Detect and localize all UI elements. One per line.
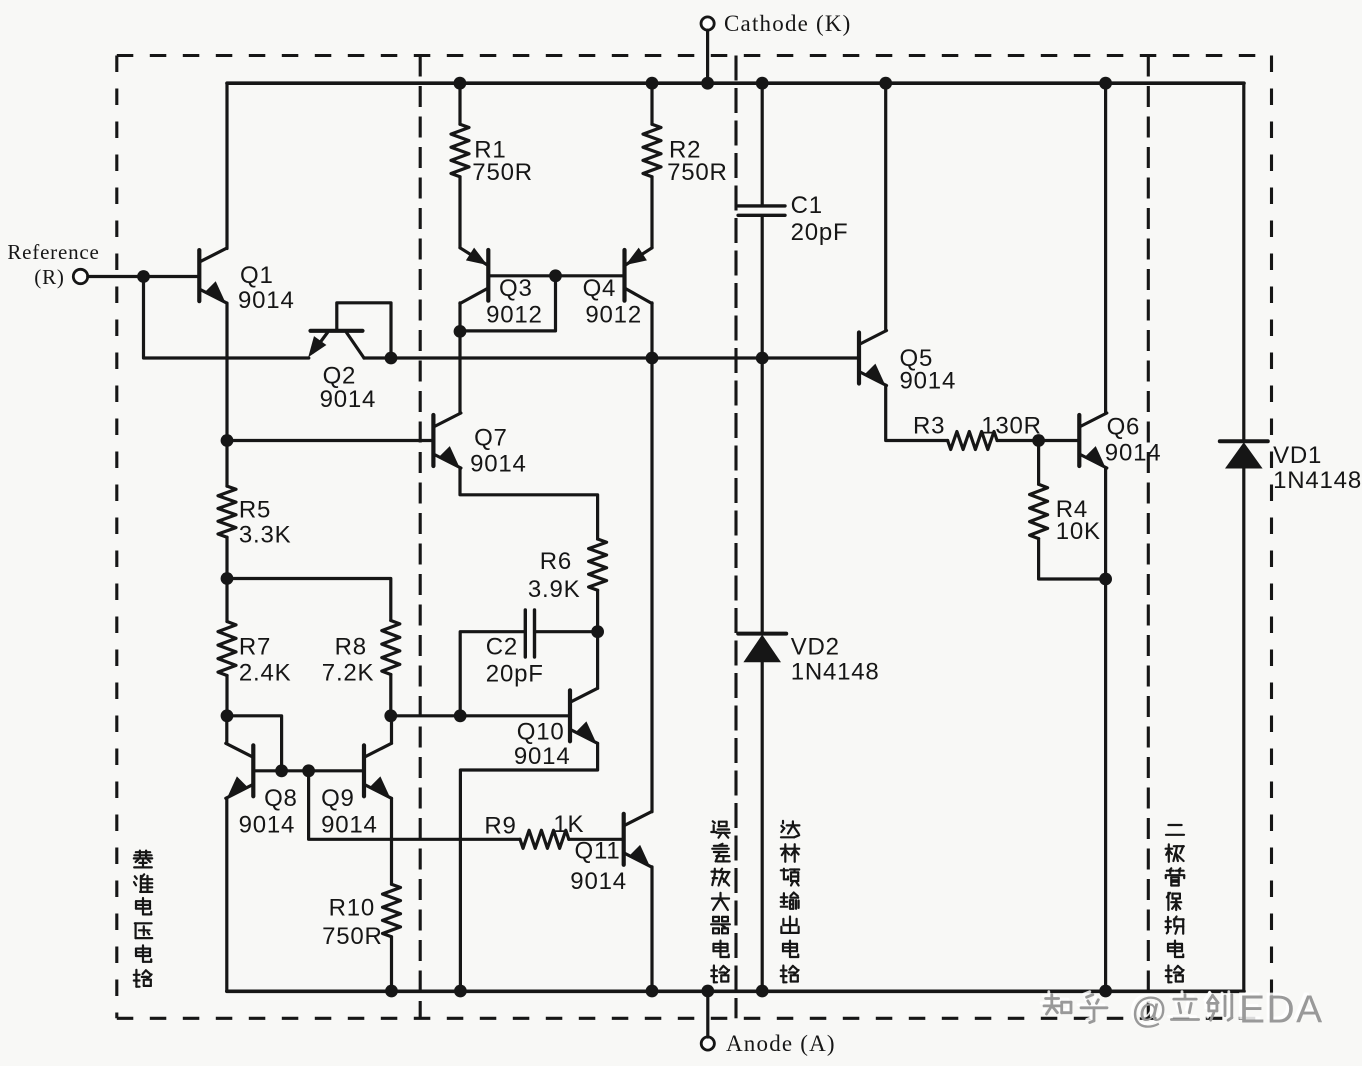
wire Q3-Q4 base tie — [488, 274, 624, 277]
wire R2 top — [650, 83, 653, 124]
wire Q9 emitter down to R10 — [390, 798, 393, 884]
section divider dashed (reference voltage / error amp) — [419, 56, 422, 1019]
wire error-amp output node (Q2 to Q5 base) — [364, 356, 859, 359]
transistor Q2 (diode-connected) — [308, 303, 391, 358]
section frame: outer dashed border right — [1270, 56, 1273, 1019]
wire R4 top — [1037, 441, 1040, 485]
wire Q11 collector up to mid node — [650, 358, 653, 812]
wire Q1 collector to top bus — [225, 83, 228, 248]
label Anode (A) — [726, 1031, 836, 1056]
terminal Cathode (K) pin circle — [701, 17, 714, 30]
resistor R2 — [643, 124, 661, 177]
resistor R1 — [451, 124, 469, 177]
wire VD2 bottom to bottom bus — [761, 662, 764, 991]
svg-text:9012: 9012 — [486, 302, 543, 329]
label Q3 value 9012 — [486, 302, 543, 329]
wire R3 to Q6 base — [997, 439, 1079, 442]
capacitor C1 — [738, 206, 785, 215]
wire bottom anode bus — [227, 989, 1244, 993]
svg-text:Anode (A): Anode (A) — [726, 1031, 836, 1056]
svg-text:Q10: Q10 — [517, 719, 565, 746]
wire Q3 collector drop — [458, 303, 461, 332]
transistor Q1 — [199, 248, 227, 303]
svg-text:Q8: Q8 — [264, 785, 298, 812]
label R9 value 1K — [553, 811, 584, 838]
label Q9 — [321, 785, 355, 812]
label Q8 — [264, 785, 298, 812]
label Q4 — [583, 275, 617, 302]
label R3 — [913, 413, 945, 440]
section label: reference voltage circuit (基准电压电路) — [134, 851, 152, 987]
transistor Q9 — [364, 743, 392, 798]
junction dots (all solder nodes) — [137, 77, 1112, 998]
label Q10 — [517, 719, 565, 746]
label R7 — [239, 634, 271, 661]
wire anode lead — [706, 991, 709, 1037]
wire R1 top — [458, 83, 461, 124]
svg-text:R7: R7 — [239, 634, 271, 661]
label Q5 value 9014 — [900, 368, 957, 395]
transistor Q5 — [859, 331, 887, 386]
wire R7 bottom — [225, 676, 228, 716]
wire Q8 collector up — [225, 716, 228, 744]
wire Q7 emitter to R6 — [460, 468, 598, 539]
label R7 value 2.4K — [239, 659, 292, 686]
label C1 — [791, 192, 823, 219]
resistor R8 — [382, 621, 400, 675]
label R4 value 10K — [1056, 518, 1101, 545]
transistor Q10 — [570, 688, 598, 743]
label Q5 — [900, 345, 934, 372]
section divider dashed (error amp / darlington output) — [734, 56, 737, 1019]
svg-text:750R: 750R — [472, 159, 533, 186]
svg-text:9014: 9014 — [900, 368, 957, 395]
transistor Q7 — [433, 413, 461, 468]
label Q2 — [323, 362, 357, 389]
watermark zhihu @lceda — [1041, 986, 1324, 1032]
transistor Q3 — [460, 248, 488, 304]
svg-text:9014: 9014 — [470, 451, 527, 478]
svg-text:VD1: VD1 — [1273, 442, 1322, 469]
wire Q6 collector up to top bus — [1104, 83, 1107, 413]
section label: diode protection circuit (二极管保护电路) — [1166, 825, 1185, 982]
label R1 value 750R — [472, 159, 533, 186]
svg-text:9014: 9014 — [570, 868, 627, 895]
wire R7 top — [225, 579, 228, 622]
section frame: outer dashed border left — [115, 56, 118, 1019]
svg-text:9014: 9014 — [320, 386, 377, 413]
wire R9 to Q11 base — [569, 838, 624, 841]
svg-text:R10: R10 — [329, 895, 375, 922]
transistor Q8 — [226, 743, 254, 798]
label R4 — [1056, 496, 1088, 523]
wire Q7 base — [227, 439, 433, 442]
wire Q6 emitter down to bottom bus — [1104, 468, 1107, 991]
label R2 value 750R — [667, 159, 728, 186]
label Q7 — [474, 424, 508, 451]
svg-text:1N4148: 1N4148 — [1273, 467, 1362, 494]
wire R5 top — [225, 441, 228, 487]
label (R) — [34, 265, 64, 289]
label Q1 — [240, 262, 274, 289]
resistor R6 — [589, 539, 607, 590]
svg-text:Cathode (K): Cathode (K) — [724, 11, 852, 36]
svg-text:Q11: Q11 — [575, 838, 621, 865]
svg-text:9014: 9014 — [238, 287, 295, 314]
label Q7 value 9014 — [470, 451, 527, 478]
terminal Reference (R) pin circle — [73, 269, 87, 283]
wire VD1 bottom to bottom bus — [1242, 469, 1245, 992]
wire R1 bottom to Q3 emitter — [458, 177, 461, 248]
svg-text:10K: 10K — [1056, 518, 1101, 545]
resistor R3 — [948, 432, 998, 450]
svg-text:750R: 750R — [322, 923, 383, 950]
label Q8 value 9014 — [239, 811, 296, 838]
svg-text:750R: 750R — [667, 159, 728, 186]
label R3 value 130R — [981, 413, 1042, 440]
wire R10 bottom — [390, 937, 393, 991]
svg-text:VD2: VD2 — [791, 633, 840, 660]
transistor Q11 — [624, 812, 652, 867]
label R5 value 3.3K — [239, 521, 292, 548]
wire Q10 emitter return — [460, 743, 597, 991]
svg-text:Q9: Q9 — [321, 785, 355, 812]
wire R7 node stub to Q8/Q9 base — [227, 716, 282, 771]
svg-text:1N4148: 1N4148 — [791, 659, 880, 686]
label R6 — [540, 548, 572, 575]
wire Q7 collector up to Q3 collector node — [458, 331, 461, 413]
wire C1 top — [761, 83, 764, 204]
wire Q8-Q9 base tie — [253, 769, 364, 772]
svg-text:@: @ — [1131, 990, 1168, 1031]
resistor R5 — [218, 486, 236, 537]
svg-text:(R): (R) — [34, 265, 64, 289]
svg-text:Q4: Q4 — [583, 275, 617, 302]
wire R4 bottom to Q6 emitter — [1039, 539, 1106, 579]
svg-text:C2: C2 — [486, 634, 518, 661]
wire C1 bottom to mid node — [761, 217, 764, 358]
label Q9 value 9014 — [321, 811, 378, 838]
label R2 — [669, 137, 701, 164]
terminal Anode (A) pin circle — [701, 1037, 714, 1050]
svg-text:9014: 9014 — [514, 743, 571, 770]
wire Q11 emitter down to bottom bus — [650, 867, 653, 991]
wire Q10 collector up to R6/C2 node — [596, 632, 599, 689]
label R8 — [335, 634, 367, 661]
diode VD1 — [1220, 441, 1268, 468]
wire Q1 emitter down — [225, 303, 228, 440]
wire R6 bottom — [596, 590, 599, 632]
section label: error amplifier circuit (误差放大器电路) — [711, 821, 730, 982]
wire Q5 collector up to top bus — [884, 83, 887, 331]
section divider dashed (darlington / diode protection) — [1147, 56, 1150, 1019]
label Q11 — [575, 838, 621, 865]
svg-text:R9: R9 — [484, 812, 516, 839]
wire VD1 top — [1242, 83, 1245, 441]
diode VD2 — [738, 634, 786, 663]
label Q11 value 9014 — [570, 868, 627, 895]
label Q6 value 9014 — [1105, 439, 1162, 466]
section frame: outer dashed border bottom — [117, 1017, 1272, 1020]
wire R8 bottom — [389, 675, 392, 716]
label R5 — [239, 497, 271, 524]
svg-text:2.4K: 2.4K — [239, 659, 292, 686]
wire C2 branch — [460, 632, 524, 716]
label R1 — [474, 137, 506, 164]
svg-text:R3: R3 — [913, 413, 945, 440]
svg-text:R8: R8 — [335, 634, 367, 661]
svg-text:Q1: Q1 — [240, 262, 274, 289]
label C1 value 20pF — [791, 219, 849, 246]
svg-text:Q6: Q6 — [1107, 413, 1141, 440]
svg-text:R6: R6 — [540, 548, 572, 575]
label VD1 — [1273, 442, 1322, 469]
label C2 — [486, 634, 518, 661]
wire R5 bottom — [225, 537, 228, 578]
wire base node drop to R9 — [309, 771, 520, 840]
wire VD2 top — [761, 358, 764, 634]
section label: darlington output circuit (达林顿输出电路) — [781, 821, 800, 982]
label Q2 value 9014 — [320, 386, 377, 413]
label Q1 value 9014 — [238, 287, 295, 314]
transistor Q6 — [1079, 413, 1107, 468]
svg-text:9014: 9014 — [239, 811, 296, 838]
label VD2 — [791, 633, 840, 660]
label Q4 value 9012 — [585, 302, 642, 329]
label Q10 value 9014 — [514, 743, 571, 770]
svg-text:Q3: Q3 — [499, 275, 533, 302]
label Q3 — [499, 275, 533, 302]
label R10 value 750R — [322, 923, 383, 950]
svg-text:1K: 1K — [553, 811, 584, 838]
wire reference lead — [88, 275, 200, 278]
label VD2 value 1N4148 — [791, 659, 880, 686]
label Q6 — [1107, 413, 1141, 440]
wire R5/R7 node to R8 — [227, 579, 391, 621]
label Cathode (K) — [724, 11, 852, 36]
label R6 value 3.9K — [528, 576, 581, 603]
label Reference — [7, 240, 99, 264]
wire top cathode bus — [227, 81, 1244, 85]
resistor R9 — [520, 830, 569, 848]
wire Q8 emitter down to bottom bus — [225, 798, 228, 991]
label R8 value 7.2K — [322, 659, 375, 686]
wire Q3 base-collector loop — [460, 276, 556, 331]
svg-text:3.3K: 3.3K — [239, 521, 292, 548]
resistor R4 — [1030, 484, 1048, 538]
wire Q5 emitter down to R3 — [886, 385, 948, 440]
svg-text:R5: R5 — [239, 497, 271, 524]
label VD1 value 1N4148 — [1273, 467, 1362, 494]
svg-text:20pF: 20pF — [486, 660, 544, 687]
label R9 — [484, 812, 516, 839]
svg-text:Q7: Q7 — [474, 424, 508, 451]
resistor R7 — [218, 622, 236, 676]
capacitor C2 — [525, 610, 534, 657]
wire reference node drop — [144, 277, 309, 359]
svg-text:9014: 9014 — [321, 811, 378, 838]
svg-text:7.2K: 7.2K — [322, 659, 375, 686]
label R10 — [329, 895, 375, 922]
wire R2 bottom to Q4 emitter — [650, 177, 653, 248]
svg-text:C1: C1 — [791, 192, 823, 219]
wire Q9 collector up to R8 — [390, 716, 393, 744]
resistor R10 — [383, 884, 401, 937]
wire Q10 base — [392, 714, 571, 717]
svg-text:3.9K: 3.9K — [528, 576, 581, 603]
label C2 value 20pF — [486, 660, 544, 687]
transistor Q4 — [625, 248, 653, 304]
svg-text:130R: 130R — [981, 413, 1042, 440]
wire C2 to R6 node — [536, 630, 598, 633]
svg-text:Reference: Reference — [7, 240, 99, 264]
wire Q4 collector drop — [650, 303, 653, 358]
section frame: outer dashed border top — [117, 54, 1272, 57]
wire cathode lead — [706, 30, 709, 83]
svg-text:9012: 9012 — [585, 302, 642, 329]
svg-text:20pF: 20pF — [791, 219, 849, 246]
svg-text:9014: 9014 — [1105, 439, 1162, 466]
svg-text:EDA: EDA — [1239, 989, 1324, 1032]
